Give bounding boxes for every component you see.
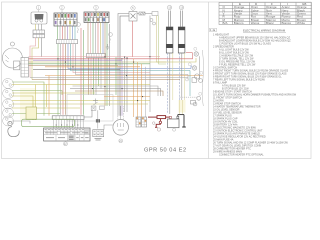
spark plug cap <box>8 121 19 136</box>
wire battery cables <box>178 115 186 127</box>
node label circle 1 <box>36 5 41 12</box>
node label circle 2 <box>60 5 65 13</box>
CDI pins <box>54 120 84 129</box>
svg-text:CONNECTOR HEATER PTC OPTION: CONNECTOR HEATER PTC OPTIONAL <box>219 153 264 156</box>
yellow-green wire fan <box>12 76 150 124</box>
ignition coil 2 <box>178 11 185 54</box>
node label circle 5 <box>131 6 135 12</box>
pin dots <box>56 125 79 126</box>
lamp wires pale <box>179 100 186 114</box>
svg-text:Blanco: Blanco <box>234 21 244 25</box>
gray bundle to regulator/battery <box>70 86 198 97</box>
regulator maroon wiring <box>148 116 170 128</box>
wire coil leads down <box>167 53 184 114</box>
handlebar switch connector <box>84 12 109 23</box>
node label circle 7 <box>179 5 184 10</box>
legend list <box>213 33 297 156</box>
magneto flywheel <box>113 120 129 136</box>
fuse box <box>191 101 196 105</box>
battery label <box>173 128 176 131</box>
wire bar to HT lead <box>84 110 92 117</box>
wire center verticals <box>116 57 145 117</box>
pale yellow wash <box>20 88 35 120</box>
battery <box>168 116 180 127</box>
block3 sub connector <box>87 54 106 58</box>
svg-text:ELECTRICAL WIRING DIAGRAM: ELECTRICAL WIRING DIAGRAM <box>243 29 286 33</box>
flasher icon b <box>109 33 113 43</box>
tail lamp cluster <box>192 50 204 106</box>
flasher relay box <box>26 107 37 120</box>
svg-text:1 Ja: 1 Ja <box>210 28 216 32</box>
connector strip A <box>136 117 141 127</box>
chassis outline box <box>67 95 113 122</box>
ground loop green <box>22 119 75 127</box>
node label circle 3 <box>94 5 99 12</box>
main harness horizontals <box>29 53 204 80</box>
svg-text:B/A: B/A <box>223 21 228 25</box>
ignition switch <box>129 12 137 22</box>
wire colour code table <box>219 3 312 25</box>
engine connector block <box>93 130 104 141</box>
wire headlight to harness <box>30 38 42 80</box>
CDI unit block <box>44 128 90 141</box>
svg-text:Bianco: Bianco <box>282 21 292 25</box>
ground symbol <box>106 44 109 49</box>
wire headlight pins <box>36 24 42 30</box>
svg-text:Weiss: Weiss <box>251 21 260 25</box>
wire red vertical <box>80 28 82 115</box>
magneto label <box>119 139 123 143</box>
wire block3 connector down <box>89 58 102 95</box>
wire green vertical <box>83 30 85 115</box>
svg-text:GPR 50 04 E2: GPR 50 04 E2 <box>144 148 187 154</box>
lamp labels <box>186 47 203 95</box>
CDI connector bar <box>52 116 84 120</box>
small bolt marks inside <box>93 99 98 106</box>
key symbol circles <box>150 19 156 26</box>
wire switch runs <box>118 14 166 116</box>
legend header <box>210 28 286 33</box>
small component box <box>152 12 158 16</box>
engine ground boxes <box>91 106 104 110</box>
junction dots <box>57 56 150 101</box>
headlight unit <box>31 12 47 24</box>
ignition coil 1 <box>166 11 173 54</box>
svg-text:Blanc: Blanc <box>266 21 274 25</box>
flasher icon a <box>77 23 81 33</box>
resistor hatched <box>137 12 152 15</box>
connector strip B <box>142 117 147 127</box>
speedometer <box>2 42 22 70</box>
node label circle 6 <box>167 5 172 10</box>
wire block3 pins down <box>88 23 103 54</box>
HT coil hatch <box>96 119 100 122</box>
headlight connector <box>33 30 45 38</box>
border frame <box>2 2 312 159</box>
node label under CDI <box>64 142 68 146</box>
wire right laterals to lamps <box>186 53 193 96</box>
wire cluster pins down <box>58 26 76 40</box>
cluster sub connector <box>57 40 78 44</box>
wire long right verticals <box>105 23 110 107</box>
table text <box>223 2 307 25</box>
wire cluster bundle down and bends <box>58 44 191 115</box>
regulator labels <box>152 122 160 131</box>
wire engine lead <box>97 110 99 128</box>
speedometer connector <box>21 58 29 78</box>
left switch pods <box>3 79 14 126</box>
instrument cluster connector <box>54 13 77 26</box>
svg-text:White: White <box>297 21 305 25</box>
wire magneto leads <box>104 106 124 130</box>
